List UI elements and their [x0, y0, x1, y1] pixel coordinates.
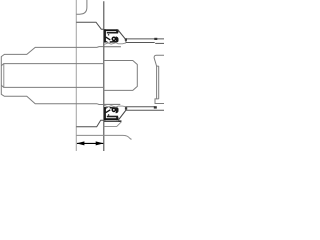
deflector bottom	[118, 110, 126, 120]
oil seal bottom: outer lip hook	[110, 108, 118, 113]
hub face line bottom	[104, 103, 120, 105]
oil seal top: lip edge	[106, 37, 111, 40]
stub shaft end	[104, 61, 137, 91]
shaft spline top line	[1, 64, 104, 66]
shaft spline bottom line	[1, 85, 104, 87]
oil seal top: inner lip wedge	[104, 40, 108, 43]
sleeve top left knot	[125, 38, 127, 41]
shaft outline	[1, 47, 104, 105]
clamp tube right	[154, 55, 164, 103]
oil seal top: outer lip hook	[110, 37, 118, 42]
housing bore bottom edge	[76, 120, 104, 127]
sleeve top joint fitting	[154, 38, 157, 40]
hub face line top	[104, 46, 121, 48]
oil seal bottom: inner lip wedge	[104, 107, 108, 110]
housing flange left face line	[75, 0, 77, 151]
deflector top	[118, 30, 126, 40]
oil seal bottom: outer case	[104, 107, 118, 120]
sleeve bottom joint fitting	[154, 106, 157, 108]
shaft face chamfer plane	[3, 64, 5, 88]
oil seal top: inner case bit	[108, 34, 109, 35]
oil seal bottom: garter spring	[112, 108, 115, 111]
shaft surface under bottom seal	[104, 105, 126, 107]
cover right face line	[103, 1, 105, 151]
housing bore top edge	[76, 22, 104, 29]
seal seat bottom lines	[104, 120, 122, 122]
sleeve bottom	[125, 106, 164, 110]
oil seal bottom: lip edge	[106, 110, 111, 113]
oil seal top: garter spring	[112, 37, 115, 40]
sleeve top	[125, 38, 164, 44]
housing boss bottom contour	[76, 135, 131, 139]
sleeve bottom left knot	[125, 107, 127, 109]
oil seal bottom: inner case bit	[108, 114, 109, 115]
shaft surface under top seal	[104, 43, 126, 45]
housing rib with fillet	[76, 0, 87, 14]
oil seal top: outer case	[104, 29, 118, 42]
dimension arrow	[76, 141, 103, 145]
